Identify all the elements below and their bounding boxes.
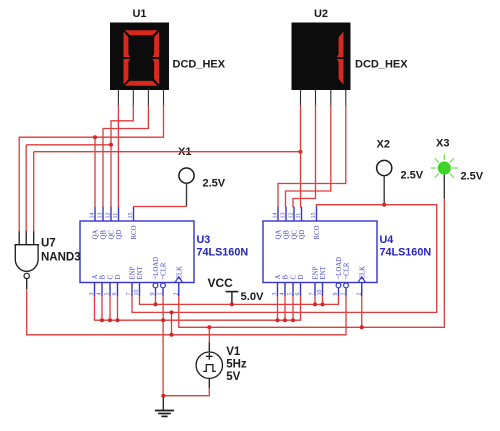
svg-text:QD: QD — [299, 230, 306, 240]
wire U2 pin4 to U4 QA — [278, 105, 346, 208]
wire data bus U3 A to U4 D — [95, 296, 301, 320]
counter U3 — [80, 207, 194, 297]
wire U2 pin1 to U4 QD — [300, 105, 302, 208]
wire U3 QA branch — [94, 137, 96, 207]
svg-text:2.5V: 2.5V — [401, 170, 424, 182]
svg-text:RCO: RCO — [314, 225, 321, 239]
junction net X1 node — [299, 150, 303, 154]
wire U4 CLK stub — [361, 296, 363, 327]
svg-text:U2: U2 — [314, 8, 328, 20]
wire U1 pin2 to U3 QC — [111, 105, 133, 208]
svg-text:5V: 5V — [226, 371, 240, 383]
label X3 2.5V — [461, 171, 484, 183]
svg-text:3: 3 — [89, 293, 95, 296]
junction U4 B node — [283, 318, 287, 322]
display U2 — [292, 23, 351, 107]
vcc VCC symbol — [226, 292, 239, 305]
svg-text:5.0V: 5.0V — [241, 291, 265, 303]
svg-text:14: 14 — [273, 213, 279, 219]
svg-text:5Hz: 5Hz — [226, 359, 247, 371]
svg-text:3: 3 — [272, 293, 278, 296]
svg-text:74LS160N: 74LS160N — [197, 247, 249, 259]
ground — [155, 396, 174, 417]
svg-text:1: 1 — [158, 293, 164, 296]
junction QC node — [109, 143, 113, 147]
svg-text:13: 13 — [98, 213, 104, 219]
junction X2 node — [382, 203, 386, 207]
junction data bus ground node — [161, 318, 165, 322]
junction V1 clock node — [207, 325, 211, 329]
svg-text:15: 15 — [311, 213, 317, 219]
junction U3 D node — [116, 318, 120, 322]
svg-text:15: 15 — [128, 213, 134, 219]
svg-text:X3: X3 — [436, 138, 449, 150]
wire U4 RCO to probe X2 and U3 ENP — [132, 205, 437, 313]
wire U2 pin2 to U4 QC — [293, 105, 316, 208]
svg-text:11: 11 — [296, 213, 302, 219]
wire U2 pin3 to U4 QB — [286, 105, 331, 208]
svg-text:~LOAD: ~LOAD — [153, 257, 160, 280]
junction QA node — [93, 135, 97, 139]
wire U4 ENP stub — [314, 296, 316, 304]
wire U3 CLR to ground — [162, 296, 164, 396]
probe X3 — [431, 154, 458, 198]
svg-text:QB: QB — [101, 230, 108, 240]
svg-text:9: 9 — [333, 293, 339, 296]
junction U3 LOAD node — [154, 302, 158, 306]
source V1 — [196, 342, 222, 389]
display U1 — [110, 23, 169, 107]
svg-text:A: A — [275, 275, 282, 280]
wire VCC enable net U3 ENT to U4 LOAD — [140, 296, 339, 304]
wire U1 pin4 to U3 QA and U7 input 1 — [19, 105, 163, 232]
svg-text:2.5V: 2.5V — [461, 171, 484, 183]
svg-text:B: B — [100, 275, 107, 280]
svg-text:DCD_HEX: DCD_HEX — [173, 59, 226, 71]
svg-text:C: C — [108, 275, 115, 280]
junction U3 B node — [100, 318, 104, 322]
svg-text:12: 12 — [289, 213, 295, 219]
svg-text:ENT: ENT — [137, 265, 144, 279]
wire U3 D stub — [117, 296, 119, 320]
svg-text:2: 2 — [173, 293, 179, 296]
svg-text:ENT: ENT — [320, 265, 327, 279]
junction U4 A node — [276, 318, 280, 322]
svg-text:14: 14 — [90, 213, 96, 219]
svg-text:13: 13 — [281, 213, 287, 219]
label X2 — [377, 139, 390, 151]
wire clock bus U3 CLK to probe X3 — [179, 199, 445, 328]
label U3 — [197, 234, 249, 259]
svg-text:U1: U1 — [132, 8, 146, 20]
counter U4 — [263, 207, 377, 297]
wire U3 C stub — [109, 296, 111, 320]
svg-text:DCD_HEX: DCD_HEX — [355, 59, 408, 71]
svg-text:7: 7 — [127, 293, 133, 296]
svg-text:QD: QD — [116, 230, 123, 240]
svg-text:QC: QC — [292, 230, 299, 240]
svg-text:QA: QA — [93, 230, 100, 240]
wire U1 pin1 to U3 QD — [117, 105, 119, 208]
junction U4 ENP node — [313, 302, 317, 306]
svg-text:ENP: ENP — [313, 266, 320, 279]
svg-text:U4: U4 — [380, 234, 394, 246]
label X3 — [436, 138, 449, 150]
svg-text:ENP: ENP — [130, 266, 137, 279]
label U2 DCD_HEX — [355, 59, 408, 71]
svg-text:V1: V1 — [226, 346, 241, 358]
label U4 — [380, 234, 432, 259]
svg-text:D: D — [115, 275, 122, 280]
label VCC — [208, 276, 234, 290]
svg-text:X2: X2 — [377, 139, 390, 151]
junction ground node — [161, 394, 165, 398]
svg-text:QB: QB — [284, 230, 291, 240]
svg-text:9: 9 — [150, 293, 156, 296]
wire net X1 from U7 input 3 to U2 pin1 column — [34, 152, 301, 232]
wire U4 C stub — [292, 296, 294, 320]
svg-text:RCO: RCO — [131, 225, 138, 239]
probe X2 — [377, 160, 392, 204]
label VCC 5.0V — [241, 291, 265, 303]
svg-text:U3: U3 — [197, 234, 211, 246]
svg-text:6: 6 — [112, 293, 118, 296]
wire riser to carry net — [171, 312, 173, 334]
junction U4 C node — [291, 318, 295, 322]
junction riser bottom node — [170, 333, 174, 337]
svg-text:5: 5 — [288, 293, 294, 296]
junction riser top node — [170, 310, 174, 314]
svg-text:10: 10 — [134, 290, 140, 296]
svg-text:74LS160N: 74LS160N — [380, 247, 432, 259]
label U1 — [132, 8, 146, 20]
nand U7 — [15, 231, 39, 289]
svg-text:6: 6 — [295, 293, 301, 296]
label X1 2.5V — [203, 178, 226, 190]
svg-text:1: 1 — [341, 293, 347, 296]
wire U4 A stub — [277, 296, 279, 320]
wire V1 minus to ground — [163, 388, 209, 396]
svg-text:5: 5 — [105, 293, 111, 296]
svg-text:~LOAD: ~LOAD — [336, 257, 343, 280]
svg-text:~CLR: ~CLR — [161, 262, 168, 279]
label U2 — [314, 8, 328, 20]
svg-text:C: C — [291, 275, 298, 280]
wire U3 B stub — [101, 296, 103, 320]
label V1 — [226, 346, 247, 383]
wire U1 pin3 to U3 QB — [103, 105, 148, 208]
svg-text:NAND3: NAND3 — [41, 252, 81, 264]
junction U4 ENT node — [321, 302, 325, 306]
svg-text:VCC: VCC — [208, 276, 234, 290]
svg-text:QC: QC — [109, 230, 116, 240]
label X2 2.5V — [401, 170, 424, 182]
svg-text:2.5V: 2.5V — [203, 178, 226, 190]
svg-text:B: B — [283, 275, 290, 280]
svg-text:~CLR: ~CLR — [344, 262, 351, 279]
svg-text:2: 2 — [356, 293, 362, 296]
label U7 — [41, 238, 81, 264]
wire U7 input 2 to U3 QC column — [26, 145, 111, 232]
svg-text:QA: QA — [276, 230, 283, 240]
wire U3 RCO to probe X1 — [134, 206, 187, 208]
wire U4 ENT stub — [322, 296, 324, 304]
wire U3 LOAD stub — [155, 296, 157, 304]
label U1 DCD_HEX — [173, 59, 226, 71]
wire V1 plus to clock bus — [208, 327, 210, 342]
probe X1 — [179, 168, 194, 207]
wire U7 output to U4 CLR — [27, 289, 346, 335]
svg-text:A: A — [92, 275, 99, 280]
svg-text:11: 11 — [113, 213, 119, 219]
svg-text:D: D — [298, 275, 305, 280]
label X1 — [178, 146, 191, 158]
svg-text:4: 4 — [280, 293, 286, 296]
svg-text:12: 12 — [106, 213, 112, 219]
svg-text:U7: U7 — [41, 238, 56, 250]
svg-text:4: 4 — [97, 293, 103, 296]
wire U4 B stub — [284, 296, 286, 320]
svg-text:10: 10 — [317, 290, 323, 296]
junction U3 C node — [108, 318, 112, 322]
junction U4 CLK node — [360, 325, 364, 329]
junction VCC node — [230, 302, 234, 306]
svg-text:7: 7 — [310, 293, 316, 296]
